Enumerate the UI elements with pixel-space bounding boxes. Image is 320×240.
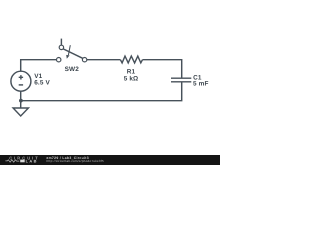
svg-text:6.5 V: 6.5 V (34, 79, 50, 86)
wire resistor to top-right corner down to capacitor top plate (143, 60, 182, 78)
svg-text:5 mF: 5 mF (193, 81, 209, 88)
svg-text:R1: R1 (127, 68, 136, 75)
svg-text:SW2: SW2 (65, 66, 80, 73)
switch SW2 actuator arrow (66, 45, 70, 59)
wire switch right terminal to resistor (87, 59, 121, 61)
switch SW2 right terminal (82, 58, 86, 62)
wire capacitor bottom down and along bottom to junction (21, 82, 182, 101)
capacitor C1 bottom plate (171, 81, 191, 83)
junction node at V1 / ground (19, 99, 23, 103)
switch SW2 lever (63, 49, 82, 58)
resistor R1 (120, 56, 142, 63)
wire V1 bottom to ground junction (20, 91, 22, 101)
switch SW2 left terminal (57, 58, 61, 62)
V1 minus sign (19, 84, 23, 86)
ground stub (20, 101, 22, 108)
ground symbol (13, 108, 28, 116)
CircuitLab logo resistor squiggle (5, 160, 19, 162)
wire V1 top to switch left terminal (21, 60, 57, 72)
capacitor C1 top plate (171, 77, 191, 79)
watermark bar (0, 155, 220, 165)
svg-text:5 kΩ: 5 kΩ (124, 76, 139, 83)
voltage source V1 circle (11, 71, 31, 91)
svg-text:LAB: LAB (26, 159, 38, 164)
svg-text:http://circuitlab.com/c/phode7: http://circuitlab.com/c/phode7uke3f5 (47, 159, 104, 163)
switch SW2 upper throw stub (60, 39, 62, 46)
V1 plus sign (19, 75, 23, 79)
switch SW2 upper terminal (59, 45, 63, 49)
CircuitLab logo block (20, 160, 25, 163)
